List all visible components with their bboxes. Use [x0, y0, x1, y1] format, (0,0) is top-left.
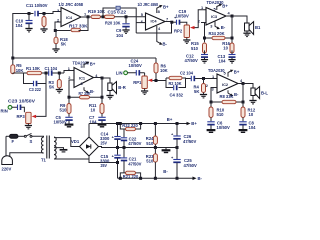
- capacitor C15b: [100, 148, 121, 179]
- node R3 tap: [58, 72, 61, 75]
- ground 0V: [162, 148, 171, 153]
- svg-text:510: 510: [217, 112, 225, 117]
- resistor R11: [89, 97, 104, 113]
- capacitor C21: [121, 148, 142, 173]
- svg-text:10/50V: 10/50V: [176, 14, 189, 19]
- wire: IC3 out to speaker: [232, 16, 247, 23]
- wire: IC4b feedback bottom: [136, 22, 171, 34]
- svg-text:510: 510: [60, 107, 68, 112]
- svg-text:R2 10K: R2 10K: [169, 81, 182, 86]
- svg-text:B-: B-: [163, 41, 168, 46]
- ground under C8: [239, 130, 248, 132]
- capacitor C3: [29, 81, 42, 92]
- wire: IC3 out riser down: [231, 16, 233, 43]
- power B- IC2: [228, 90, 239, 97]
- connector LIN: [116, 71, 128, 76]
- wire: IC2 out to speaker: [243, 84, 253, 89]
- power B- IC3: [215, 21, 226, 30]
- svg-text:B1: B1: [255, 25, 261, 30]
- svg-text:R20 10K: R20 10K: [105, 21, 121, 26]
- ground under B1: [243, 31, 250, 37]
- potentiometer RP2: [174, 25, 195, 38]
- wire: RIN row: [12, 107, 25, 112]
- svg-text:B-R: B-R: [118, 85, 125, 90]
- power B- IC4b: [157, 26, 168, 46]
- wire: IC4a inverting loop: [55, 22, 71, 31]
- wire: IC4b pin6 stub: [136, 22, 145, 24]
- op-amp IC4a: [59, 2, 84, 27]
- plug 220V: [2, 156, 13, 172]
- svg-text:1/2 JRC 4058: 1/2 JRC 4058: [59, 2, 84, 7]
- ground under RP1: [141, 89, 148, 95]
- speaker B-L: [251, 87, 269, 99]
- svg-text:R17 33K: R17 33K: [69, 24, 88, 29]
- node IC1 out: [101, 77, 104, 80]
- ground under R3: [56, 90, 63, 93]
- ground under C10: [25, 29, 32, 32]
- wire: RP2 wiper to IC3 pin1: [195, 10, 207, 28]
- ground under R4: [200, 95, 207, 98]
- svg-text:C2 104: C2 104: [180, 71, 194, 76]
- svg-text:47/50V: 47/50V: [128, 161, 141, 166]
- svg-text:T1: T1: [41, 158, 47, 163]
- resistor R22 subrow: [120, 123, 140, 131]
- svg-text:5K: 5K: [49, 84, 54, 89]
- node C26 top: [176, 122, 179, 125]
- node R7 right: [101, 96, 104, 99]
- svg-text:5K: 5K: [61, 42, 66, 47]
- svg-text:R22 220: R22 220: [122, 123, 138, 128]
- power B+ IC4b: [157, 5, 169, 13]
- capacitor C13: [218, 50, 236, 63]
- resistor R21 subrow: [120, 169, 168, 179]
- svg-text:104: 104: [249, 125, 257, 130]
- svg-text:B+: B+: [90, 62, 96, 67]
- wire: 0V line: [99, 147, 178, 148]
- node R24 top: [154, 122, 157, 125]
- node R24 bottom: [154, 146, 157, 149]
- svg-text:B-: B-: [163, 169, 168, 174]
- svg-text:B-: B-: [221, 25, 226, 30]
- node R22 left: [119, 122, 122, 125]
- node C14 top: [116, 122, 119, 125]
- node R34 right: [231, 37, 234, 40]
- potentiometer RP1: [133, 73, 152, 89]
- power B+ IC2: [228, 70, 240, 77]
- svg-text:220V: 220V: [2, 167, 12, 172]
- bridge rectifier VD1: [71, 137, 99, 156]
- node R7 left: [68, 96, 71, 99]
- svg-text:25V: 25V: [101, 163, 108, 168]
- wire: block to C2: [186, 78, 191, 80]
- svg-text:B-: B-: [234, 92, 239, 97]
- svg-text:B+: B+: [191, 121, 197, 126]
- svg-text:1/2 JRC 4558: 1/2 JRC 4558: [138, 2, 159, 7]
- svg-text:7: 7: [166, 16, 168, 21]
- capacitor C23: [8, 99, 35, 111]
- ground under C5: [65, 125, 74, 127]
- node R8 left: [210, 101, 213, 104]
- node B- rail right: [176, 177, 179, 180]
- capacitor C19: [172, 9, 189, 25]
- capacitor C4: [170, 85, 184, 97]
- svg-text:B+: B+: [167, 117, 173, 122]
- resistor R23: [146, 148, 158, 179]
- transformer T1 secondary: [41, 137, 56, 163]
- svg-text:C1 104: C1 104: [45, 66, 58, 71]
- ground under RP3: [25, 124, 32, 129]
- svg-text:R21 220: R21 220: [123, 174, 139, 179]
- resistor R12: [241, 102, 256, 118]
- op-amp IC4b: [138, 2, 166, 30]
- capacitor C7: [89, 114, 106, 125]
- svg-text:C11 10/50V: C11 10/50V: [26, 3, 48, 8]
- speaker B1: [245, 22, 262, 35]
- svg-text:R7 33K: R7 33K: [79, 91, 91, 96]
- svg-text:LIN: LIN: [116, 71, 123, 76]
- svg-text:C23 10/50V: C23 10/50V: [8, 99, 35, 104]
- svg-text:VD1: VD1: [71, 139, 80, 144]
- svg-text:C4 332: C4 332: [170, 92, 184, 97]
- rail B+: [89, 117, 197, 126]
- svg-text:47/50V: 47/50V: [185, 58, 198, 63]
- svg-text:B+: B+: [234, 70, 240, 75]
- svg-text:RIN: RIN: [1, 108, 8, 113]
- capacitor C25: [171, 148, 197, 179]
- resistor R6: [154, 58, 168, 81]
- resistor R5: [11, 58, 24, 74]
- capacitor C15 feedback wire: [103, 6, 136, 33]
- resistor R18: [54, 31, 68, 50]
- capacitor C9: [116, 17, 130, 38]
- resistor R3: [49, 73, 62, 90]
- wire: wiper row left ch: [152, 80, 166, 82]
- resistor R20: [105, 15, 121, 25]
- svg-text:IC4: IC4: [151, 19, 158, 24]
- svg-text:RP3: RP3: [17, 114, 26, 119]
- resistor R24: [146, 124, 158, 148]
- svg-text:B-: B-: [90, 89, 95, 94]
- svg-text:R1 10K: R1 10K: [26, 66, 40, 71]
- wire: plug right prong to transformer: [10, 153, 44, 157]
- node C22 bottom: [123, 146, 126, 149]
- ground under C6: [207, 130, 216, 132]
- wire: switch to transformer: [32, 135, 44, 138]
- node R8 right: [242, 101, 245, 104]
- wire: IC3 out: [226, 15, 232, 17]
- resistor R2 parallel block: [166, 76, 186, 87]
- transformer T1 core: [47, 136, 50, 159]
- capacitor C14: [100, 124, 121, 148]
- switch S: [18, 133, 33, 144]
- ground under C7: [98, 125, 107, 127]
- wire: IC2 out: [238, 83, 243, 85]
- node R21 right: [139, 177, 142, 180]
- svg-text:10: 10: [249, 112, 254, 117]
- node C9 tap: [125, 15, 128, 18]
- resistor R4: [194, 79, 206, 95]
- wire: plug left prong riser: [5, 136, 7, 157]
- resistor R34: [205, 31, 233, 40]
- transformer T1 primary: [42, 137, 44, 153]
- svg-text:R8 33K: R8 33K: [220, 94, 234, 99]
- capacitor C2: [180, 71, 194, 82]
- svg-text:10/50V: 10/50V: [217, 125, 230, 130]
- resistor R25 bias: [42, 14, 46, 30]
- node R25 tap: [43, 12, 46, 15]
- svg-text:B+: B+: [222, 3, 228, 8]
- speaker B-R: [108, 82, 126, 94]
- node: IC4a out: [87, 15, 90, 18]
- wire: C2 to IC2 pin1: [195, 78, 217, 80]
- wire: R-ch signal row: [13, 71, 74, 74]
- capacitor C22: [121, 129, 142, 148]
- connector RIN: [1, 105, 12, 113]
- ground under C12: [201, 60, 208, 63]
- svg-text:10K: 10K: [160, 68, 168, 73]
- svg-text:10: 10: [91, 107, 96, 112]
- ground under B-R: [106, 91, 113, 99]
- node C14 bottom: [116, 146, 119, 149]
- node IC2 out: [242, 82, 245, 85]
- ground under C13: [228, 60, 235, 63]
- node R18 tap: [54, 29, 57, 32]
- svg-text:IC2: IC2: [222, 82, 229, 87]
- svg-text:510: 510: [146, 159, 154, 164]
- node R22 right: [139, 122, 142, 125]
- node R21 left: [119, 177, 122, 180]
- svg-text:IC1: IC1: [79, 76, 86, 81]
- wire: R17 to output node: [79, 17, 89, 31]
- svg-text:25V: 25V: [101, 141, 108, 146]
- wire: IC4a out to R19: [81, 16, 91, 18]
- resistor R19: [88, 9, 105, 19]
- wire: bridge plus riser: [88, 124, 90, 138]
- svg-text:C15 0.22: C15 0.22: [108, 9, 127, 14]
- svg-text:510: 510: [146, 141, 154, 146]
- capacitor C1: [45, 66, 58, 76]
- node bridge minus junction: [116, 161, 119, 164]
- svg-text:10K: 10K: [16, 68, 24, 73]
- resistor R17: [69, 24, 88, 32]
- wire: secondary bottom to bridge: [54, 158, 89, 160]
- node C21 top: [123, 146, 126, 149]
- ground under R25: [40, 29, 47, 32]
- wire: RP3 wiper riser: [36, 73, 46, 116]
- svg-text:104: 104: [219, 59, 227, 64]
- capacitor C10: [16, 14, 33, 29]
- resistor R15: [191, 41, 207, 53]
- node X junction: [102, 15, 105, 18]
- svg-text:47/50V: 47/50V: [128, 141, 141, 146]
- node bus left: [11, 57, 14, 60]
- wire: R20 to IC4b pin5: [115, 16, 146, 18]
- svg-text:RP2: RP2: [174, 29, 183, 34]
- svg-text:F: F: [12, 139, 15, 144]
- node R34 left: [203, 37, 206, 40]
- wire: into IC4a pin3: [46, 12, 61, 14]
- capacitor C11: [26, 3, 48, 16]
- node R4 tap: [202, 77, 205, 80]
- node IC4b out: [170, 21, 173, 24]
- power B+ IC3: [217, 3, 229, 10]
- wire: left input riser top: [13, 14, 34, 59]
- wire: secondary top to bridge: [54, 138, 80, 147]
- capacitor C12: [185, 50, 209, 63]
- capacitor C26: [171, 124, 196, 148]
- capacitor C6: [207, 118, 230, 131]
- svg-text:10: 10: [223, 46, 228, 51]
- svg-text:B+: B+: [163, 5, 169, 10]
- wire: IC1 pin2 riser: [69, 80, 74, 97]
- node 0V right: [176, 146, 179, 149]
- svg-text:47/50V: 47/50V: [184, 163, 197, 168]
- node C10 tap: [28, 12, 31, 15]
- ground under C9: [122, 30, 129, 33]
- resistor R10: [209, 102, 225, 118]
- wire: LIN row: [127, 72, 144, 74]
- wire: node X segment: [101, 16, 105, 18]
- svg-text:10/50V: 10/50V: [129, 63, 142, 68]
- capacitor C24: [129, 58, 142, 75]
- svg-text:104: 104: [16, 23, 24, 28]
- wire: IC1 out to speaker: [102, 78, 110, 83]
- resistor R1 parallel block: [24, 66, 47, 83]
- node IC3 out: [231, 15, 234, 18]
- svg-text:104: 104: [116, 33, 124, 38]
- svg-text:IC4: IC4: [66, 15, 73, 20]
- node R23 bottom: [154, 177, 157, 180]
- capacitor C8: [239, 118, 256, 131]
- node R6 bottom: [155, 79, 158, 82]
- svg-text:R19 10K: R19 10K: [88, 9, 105, 14]
- resistor R9: [60, 97, 72, 113]
- node riser top: [45, 72, 48, 75]
- wire: IC1 out riser: [101, 78, 103, 97]
- svg-text:S: S: [30, 139, 33, 144]
- fuse F: [6, 134, 18, 144]
- wire: bus mix line: [13, 57, 156, 59]
- op-amp IC3: [206, 0, 226, 25]
- wire: IC2 pin2 riser: [211, 88, 217, 103]
- wire: bridge minus path: [89, 156, 118, 163]
- ground under B-L: [249, 96, 256, 104]
- ground under RP2: [183, 38, 190, 44]
- svg-text:B-L: B-L: [261, 91, 268, 96]
- power B- IC1: [84, 87, 95, 94]
- wire: IC1 out: [94, 77, 103, 79]
- resistor R7: [69, 91, 102, 99]
- resistor R8: [211, 94, 243, 104]
- svg-text:B-: B-: [198, 176, 203, 181]
- svg-text:RP1: RP1: [133, 80, 142, 85]
- op-amp IC1: [73, 61, 94, 88]
- op-amp IC2: [208, 68, 238, 93]
- potentiometer RP3: [17, 112, 37, 123]
- resistor R16: [222, 41, 234, 53]
- svg-text:510: 510: [191, 46, 199, 51]
- power B+ IC1: [84, 62, 96, 68]
- svg-text:R34 20K: R34 20K: [209, 31, 225, 36]
- ground under R18: [52, 49, 59, 52]
- svg-text:5K: 5K: [194, 89, 199, 94]
- svg-text:C3 222: C3 222: [29, 87, 42, 92]
- wire: IC3 pin2 riser: [201, 23, 206, 43]
- wire: IC2 out riser: [242, 84, 244, 103]
- rail B-: [118, 176, 203, 181]
- capacitor C5: [54, 114, 73, 125]
- svg-text:IC3: IC3: [211, 14, 218, 19]
- ground at transformer tap: [54, 148, 67, 152]
- svg-text:47/50V: 47/50V: [183, 139, 196, 144]
